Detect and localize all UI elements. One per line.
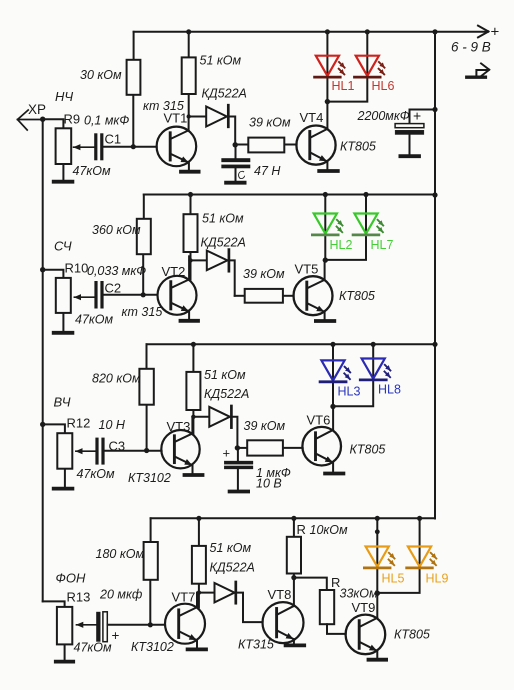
wire top supply rail: [134, 31, 487, 33]
potentiometer R10 47k: [43, 270, 95, 333]
svg-text:51 кОм: 51 кОм: [202, 212, 244, 226]
svg-text:180 кОм: 180 кОм: [96, 547, 145, 561]
svg-text:10 Н: 10 Н: [99, 418, 126, 432]
junction bus/ch2 input: [40, 267, 45, 272]
svg-text:+: +: [223, 446, 231, 461]
transistor VT4 КТ805: [296, 102, 337, 171]
svg-text:10 В: 10 В: [256, 477, 282, 491]
resistor 51k: [184, 195, 198, 280]
svg-text:39 кОм: 39 кОм: [249, 116, 291, 130]
svg-text:39 кОм: 39 кОм: [243, 267, 285, 281]
LED HL7 green: [323, 192, 394, 263]
potentiometer R13 47k: [43, 601, 96, 661]
svg-text:360 кОм: 360 кОм: [92, 223, 141, 237]
capacitor 47H: [222, 145, 251, 183]
wire C2 to VT2 base: [104, 294, 158, 296]
svg-text:47кОм: 47кОм: [73, 164, 112, 178]
LED HL5 orange: [364, 516, 404, 594]
diode VD КД522А: [191, 250, 235, 296]
svg-text:VT9: VT9: [352, 600, 376, 615]
diode VD КД522А: [193, 406, 237, 448]
wire channel 3 supply rail: [147, 343, 436, 345]
node diode out: [235, 445, 240, 450]
svg-text:47кОм: 47кОм: [77, 467, 116, 481]
svg-text:КТ805: КТ805: [339, 289, 375, 303]
LED HL9 orange: [375, 516, 449, 596]
transistor VT7 КТ3102: [165, 593, 206, 650]
transistor VT2 kt315: [158, 256, 199, 321]
svg-text:VT3: VT3: [167, 419, 191, 434]
svg-text:47кОм: 47кОм: [74, 641, 113, 655]
potentiometer R9 47k: [43, 119, 94, 182]
wire link to R33k: [294, 578, 327, 590]
svg-text:VT8: VT8: [268, 587, 292, 602]
wire left input bus: [42, 119, 44, 601]
junction bus/rail2: [432, 192, 437, 197]
resistor 360k: [137, 195, 151, 295]
wire C3 to VT3 base: [105, 450, 162, 452]
junction 180k/base: [148, 622, 153, 627]
capacitor C1 0.1uF: [94, 133, 97, 160]
svg-text:НЧ: НЧ: [55, 89, 73, 104]
capacitor 2200uF filter: [395, 110, 435, 157]
junction 360k/base: [141, 292, 146, 297]
junction bus/ch1 input: [40, 117, 45, 122]
resistor 51k: [186, 344, 200, 433]
svg-text:C2: C2: [105, 281, 122, 296]
svg-text:R10: R10: [65, 261, 89, 276]
svg-text:VT5: VT5: [295, 262, 319, 277]
svg-text:кт 315: кт 315: [122, 305, 163, 319]
svg-text:КТ805: КТ805: [350, 443, 386, 457]
svg-text:R13: R13: [67, 590, 91, 605]
capacitor 1uF 10V: [224, 448, 253, 492]
potentiometer R12 47k: [43, 424, 95, 488]
LED HL3 blue: [320, 342, 360, 407]
wire C1 to VT1 base: [103, 146, 156, 148]
svg-text:R 10кОм: R 10кОм: [297, 522, 349, 537]
wire channel 2 supply rail: [144, 194, 435, 196]
diode VD КД522А: [198, 582, 263, 622]
wire right supply bus: [434, 32, 436, 519]
LED HL6 red: [325, 29, 395, 104]
resistor 30k: [127, 32, 141, 147]
svg-text:КД522А: КД522А: [204, 387, 249, 401]
svg-text:ХР: ХР: [28, 102, 46, 117]
svg-text:39 кОм: 39 кОм: [244, 419, 286, 433]
svg-text:КД522А: КД522А: [210, 561, 255, 575]
svg-text:R9: R9: [64, 112, 81, 127]
junction bus/top rail: [432, 29, 437, 34]
svg-text:HL3: HL3: [338, 384, 361, 398]
svg-text:С: С: [236, 169, 248, 183]
junction 820k/base: [144, 448, 149, 453]
diode VD КД522А: [189, 105, 236, 144]
input connector XP arrow: [18, 110, 43, 130]
svg-text:33кОм: 33кОм: [340, 587, 379, 601]
svg-text:КД522А: КД522А: [201, 235, 246, 249]
capacitor 20uF polarized: [96, 612, 100, 642]
transistor VT1 kt315: [157, 117, 199, 172]
svg-text:C1: C1: [105, 132, 122, 147]
svg-text:30 кОм: 30 кОм: [80, 68, 122, 82]
svg-text:VT2: VT2: [162, 264, 186, 279]
svg-text:R12: R12: [67, 416, 91, 431]
resistor 51k: [192, 518, 206, 607]
svg-text:КТ805: КТ805: [394, 628, 430, 642]
svg-text:КТ805: КТ805: [340, 140, 376, 154]
svg-text:51 кОм: 51 кОм: [210, 541, 252, 555]
svg-text:HL5: HL5: [382, 572, 405, 586]
transistor VT9 КТ805: [346, 594, 387, 660]
svg-text:HL9: HL9: [426, 572, 449, 586]
svg-text:6 - 9 В: 6 - 9 В: [451, 40, 491, 55]
resistor 39k: [235, 289, 294, 303]
svg-text:КТ315: КТ315: [238, 638, 274, 652]
svg-text:HL7: HL7: [371, 238, 394, 252]
node VT8 collector: [291, 575, 296, 580]
LED HL1 red: [315, 29, 355, 101]
svg-text:+: +: [413, 108, 421, 124]
svg-text:HL2: HL2: [330, 238, 353, 252]
svg-text:СЧ: СЧ: [54, 239, 72, 254]
LED HL2 green: [312, 192, 352, 260]
LED HL8 blue: [330, 342, 401, 410]
svg-text:47 Н: 47 Н: [254, 164, 281, 178]
svg-text:HL1: HL1: [332, 79, 355, 93]
svg-text:47кОм: 47кОм: [75, 312, 114, 326]
wire channel 4 supply rail: [151, 517, 435, 519]
svg-text:КТ3102: КТ3102: [131, 640, 174, 654]
svg-text:2200мкФ: 2200мкФ: [357, 109, 410, 123]
svg-text:ФОН: ФОН: [56, 571, 86, 586]
power arrow +6-9V: [478, 26, 489, 38]
transistor VT3 КТ3102: [161, 417, 202, 475]
resistor 39k: [237, 440, 302, 455]
svg-text:HL8: HL8: [378, 383, 401, 397]
svg-text:VT6: VT6: [307, 413, 331, 428]
svg-text:51 кОм: 51 кОм: [204, 368, 246, 382]
resistor 180k: [144, 518, 158, 625]
transistor VT5 КТ805: [294, 260, 335, 321]
wire cap to VT7 base: [108, 624, 166, 626]
svg-text:20 мкф: 20 мкф: [99, 587, 143, 601]
capacitor C2 0.033uF: [94, 281, 97, 309]
resistor 51k: [182, 32, 196, 117]
node diode out: [233, 142, 238, 147]
svg-text:+: +: [491, 24, 500, 41]
svg-text:КТ3102: КТ3102: [128, 471, 171, 485]
svg-text:51 кОм: 51 кОм: [200, 54, 242, 68]
svg-text:VT7: VT7: [172, 590, 196, 605]
transistor VT8 КТ315: [263, 578, 305, 646]
junction 30k/base: [131, 144, 136, 149]
chassis / common connector arrow: [467, 63, 490, 77]
svg-text:0,1 мкФ: 0,1 мкФ: [84, 114, 129, 128]
svg-text:0,033 мкФ: 0,033 мкФ: [87, 264, 146, 278]
capacitor C3 10H: [95, 438, 98, 465]
svg-text:КД522А: КД522А: [202, 87, 247, 101]
junction bus/rail3: [432, 342, 437, 347]
svg-text:820 кОм: 820 кОм: [92, 372, 141, 386]
resistor R 10k: [287, 518, 301, 577]
svg-text:VT4: VT4: [300, 110, 324, 125]
resistor 820k: [139, 344, 153, 450]
transistor VT6 КТ805: [302, 407, 343, 474]
svg-text:VT1: VT1: [164, 111, 188, 126]
resistor R 33k: [320, 590, 346, 634]
junction bus/ch3 input: [40, 422, 45, 427]
svg-text:ВЧ: ВЧ: [54, 395, 71, 410]
svg-text:HL6: HL6: [372, 79, 395, 93]
svg-text:+: +: [112, 628, 120, 643]
resistor 39k: [235, 138, 296, 153]
